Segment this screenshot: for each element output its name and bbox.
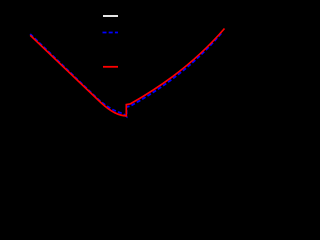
red numerical-solution curve xyxy=(30,29,224,116)
legend red line sample xyxy=(103,66,118,68)
legend white line sample xyxy=(103,15,118,17)
legend blue dashed line sample xyxy=(103,32,119,34)
plot background xyxy=(0,0,229,150)
blue dashed exact-solution curve xyxy=(30,33,222,117)
